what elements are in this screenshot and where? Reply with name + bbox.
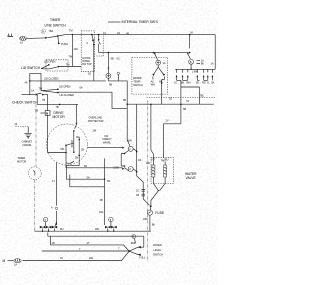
M terminal box	[35, 109, 51, 116]
svg-text:2M: 2M	[93, 129, 96, 133]
top bus wire	[66, 33, 215, 35]
svg-text:2B: 2B	[196, 81, 199, 85]
right edge labels	[211, 62, 214, 66]
water level switch label	[153, 243, 163, 256]
svg-text:MOTOR: MOTOR	[17, 160, 26, 164]
svg-text:1C: 1C	[174, 81, 177, 85]
svg-text:1A: 1A	[211, 62, 214, 66]
water level switch	[42, 235, 146, 260]
wire check switch column	[36, 95, 38, 105]
valve feed jog	[146, 124, 181, 165]
svg-text:4A: 4A	[25, 81, 28, 85]
svg-text:WATER: WATER	[153, 243, 162, 247]
wire code labels	[31, 31, 186, 245]
svg-text:1C: 1C	[103, 31, 106, 35]
svg-text:1E: 1E	[88, 72, 91, 76]
valve outputs merge	[151, 183, 165, 205]
svg-text:1WA: 1WA	[127, 138, 133, 142]
drive motor circle	[47, 124, 88, 165]
svg-text:WATER: WATER	[133, 76, 142, 80]
svg-text:7B: 7B	[56, 105, 59, 109]
svg-text:LID OPEN: LID OPEN	[44, 60, 56, 64]
svg-text:9B: 9B	[111, 56, 114, 60]
svg-text:LEVEL: LEVEL	[154, 248, 162, 252]
motor run winding	[76, 137, 84, 161]
svg-text:1Y: 1Y	[52, 179, 55, 183]
svg-text:TA: TA	[60, 256, 63, 260]
svg-text:1E: 1E	[169, 96, 172, 100]
overload contact drop	[73, 104, 77, 131]
svg-text:7B: 7B	[42, 98, 45, 102]
svg-text:1B: 1B	[81, 148, 84, 152]
fuse	[147, 205, 165, 231]
right column drop A	[180, 104, 182, 106]
water temp switch contacts	[151, 60, 166, 104]
svg-text:3A: 3A	[87, 175, 90, 179]
svg-text:1A: 1A	[163, 61, 166, 65]
svg-text:WH: WH	[186, 81, 190, 85]
push switch boundary dashes	[97, 36, 104, 57]
cabinet frame ground	[22, 133, 33, 147]
wire extra rinse out to circled-plus	[93, 72, 95, 81]
svg-text:PROTECTOR: PROTECTOR	[88, 119, 104, 123]
svg-text:9B: 9B	[109, 82, 112, 86]
contact row lower links	[177, 80, 208, 124]
svg-text:1BU: 1BU	[164, 158, 169, 162]
wire tap down to lid switch	[71, 35, 73, 67]
motor bottom wires	[66, 161, 122, 180]
connector right	[105, 217, 117, 231]
svg-text:1M: 1M	[75, 156, 78, 160]
svg-text:1G: 1G	[136, 188, 139, 192]
switch bus1 to bus2	[94, 34, 101, 53]
svg-text:3B: 3B	[100, 198, 103, 202]
svg-text:INTERNAL TIMER SW'S: INTERNAL TIMER SW'S	[122, 20, 159, 24]
svg-text:5B: 5B	[183, 107, 186, 111]
motor drop to connector	[51, 163, 58, 226]
svg-text:4B: 4B	[126, 31, 129, 35]
relay coil 2	[113, 165, 137, 171]
bottom bus 2	[48, 233, 144, 248]
svg-text:1A: 1A	[14, 263, 17, 267]
svg-text:10A: 10A	[74, 47, 79, 51]
water temp switch box	[132, 58, 168, 95]
svg-text:M: M	[46, 112, 48, 116]
svg-text:M: M	[3, 259, 6, 263]
CW direction label	[103, 134, 113, 144]
svg-text:1R: 1R	[138, 158, 141, 162]
water temp feed arrow	[153, 52, 158, 60]
internal timer sw's label	[108, 20, 159, 24]
bottom long wire	[23, 251, 130, 260]
circled plus solenoid	[106, 52, 120, 81]
svg-text:TIMER: TIMER	[50, 18, 61, 22]
svg-text:SWITCH: SWITCH	[133, 83, 143, 87]
svg-text:WHIRL: WHIRL	[103, 140, 112, 144]
svg-text:PUSH: PUSH	[61, 42, 68, 46]
connector left	[40, 217, 57, 231]
water valve label	[185, 172, 197, 180]
timer cam switch B	[187, 34, 205, 66]
svg-text:EMP: EMP	[131, 241, 137, 245]
long mid wire	[37, 103, 78, 105]
timer motor	[17, 156, 41, 180]
svg-text:TM: TM	[66, 62, 70, 66]
wire lid switch to extra rinse	[58, 66, 81, 68]
relay common bar	[121, 153, 125, 167]
svg-text:SW TOP: SW TOP	[82, 62, 92, 66]
svg-text:16A: 16A	[99, 210, 104, 214]
terminal R	[108, 72, 127, 104]
svg-text:TEMP: TEMP	[134, 80, 141, 84]
svg-text:WH: WH	[89, 256, 93, 260]
motor left terminal wire	[48, 115, 74, 162]
relay to fuse link	[136, 176, 149, 205]
timer sw bus	[175, 64, 215, 70]
svg-text:7BA: 7BA	[49, 29, 54, 33]
bottom bus 1	[35, 230, 151, 232]
timer line switch	[41, 18, 72, 46]
wire lid2 out	[58, 92, 127, 108]
svg-text:8A: 8A	[84, 164, 87, 168]
timer motor lower dashed line	[34, 180, 36, 231]
svg-text:BK: BK	[152, 222, 156, 226]
svg-text:RD: RD	[202, 81, 206, 85]
svg-text:CHECK SWITCH: CHECK SWITCH	[12, 100, 38, 104]
svg-text:LID CLOSED: LID CLOSED	[44, 76, 59, 80]
svg-text:FUSE: FUSE	[155, 211, 165, 215]
svg-text:TM: TM	[69, 55, 73, 59]
svg-text:1A: 1A	[31, 89, 34, 93]
check switch	[12, 93, 48, 111]
relay right vertical	[136, 104, 138, 176]
timer motor feed line	[35, 104, 37, 166]
svg-text:FRAME: FRAME	[23, 143, 32, 147]
svg-text:TM: TM	[35, 109, 39, 113]
svg-text:CCW: CCW	[113, 165, 120, 169]
svg-text:LINE SWITCH: LINE SWITCH	[45, 23, 67, 27]
svg-text:6B: 6B	[123, 98, 126, 102]
svg-text:6A: 6A	[80, 86, 83, 90]
svg-text:MOTOR: MOTOR	[53, 115, 66, 119]
svg-text:L-BK: L-BK	[192, 70, 198, 74]
svg-text:VALVE: VALVE	[186, 176, 197, 180]
svg-text:SWITCH: SWITCH	[153, 252, 163, 256]
svg-text:BK: BK	[201, 62, 205, 66]
svg-text:BU: BU	[60, 227, 64, 231]
svg-text:LID SWITCH: LID SWITCH	[21, 66, 41, 70]
dash-dot boundary vertical	[147, 101, 149, 263]
svg-text:1R: 1R	[52, 241, 55, 245]
svg-text:TM: TM	[39, 86, 43, 90]
motor drop right	[70, 158, 105, 225]
svg-text:9C: 9C	[117, 56, 120, 60]
valve left feed	[151, 104, 154, 161]
svg-text:5A: 5A	[211, 81, 214, 85]
svg-text:WH: WH	[95, 227, 99, 231]
motor start winding	[70, 131, 74, 153]
svg-text:2V: 2V	[166, 119, 169, 123]
svg-text:FULL: FULL	[139, 256, 146, 260]
svg-text:LID OPEN: LID OPEN	[59, 85, 71, 89]
svg-text:1B: 1B	[136, 193, 139, 197]
timer dashed boundary horizontal	[147, 96, 217, 98]
svg-text:WH: WH	[151, 82, 155, 86]
svg-text:M: M	[191, 31, 193, 35]
svg-text:7A: 7A	[186, 99, 189, 103]
svg-text:TBL: TBL	[200, 93, 205, 97]
svg-text:1A: 1A	[20, 41, 23, 45]
water valve box	[151, 158, 174, 184]
bottom bus 3	[50, 236, 129, 251]
svg-text:TM: TM	[107, 179, 111, 183]
wire plug to switch	[27, 36, 58, 38]
svg-text:OVERLOAD: OVERLOAD	[89, 115, 103, 119]
extra rinse switch box	[81, 31, 95, 72]
relay coil 1	[122, 138, 136, 153]
svg-text:1BK: 1BK	[143, 217, 148, 221]
svg-text:LID CLOSED: LID CLOSED	[60, 93, 75, 97]
bottom plug M	[3, 259, 22, 267]
lid switch 2	[39, 85, 83, 97]
right end vertical	[214, 35, 216, 70]
svg-text:TIMER: TIMER	[18, 156, 26, 160]
lid switch 1	[41, 60, 69, 81]
internal bus2 wire	[99, 52, 189, 54]
ground tap 24	[15, 122, 29, 133]
valve solenoid coils	[152, 162, 167, 184]
svg-text:2A: 2A	[117, 31, 120, 35]
wire lid common riser	[30, 73, 41, 94]
power plug L1	[7, 34, 27, 45]
svg-text:TM: TM	[69, 29, 73, 33]
svg-text:BK: BK	[181, 81, 185, 85]
timer contact row	[174, 69, 215, 84]
wire to relay 1	[88, 129, 123, 148]
